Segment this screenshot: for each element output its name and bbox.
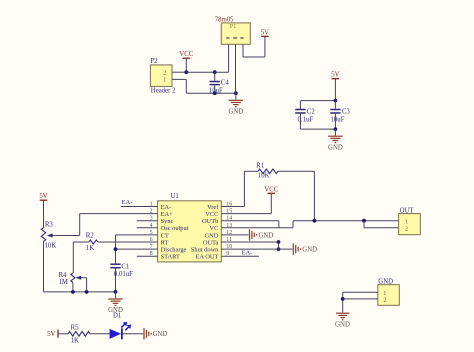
svg-text:1K: 1K [71,338,79,345]
svg-text:R5: R5 [71,324,80,331]
svg-text:EA+: EA+ [161,211,174,218]
svg-text:VCC: VCC [205,211,218,218]
svg-text:10K: 10K [45,242,57,249]
svg-text:2: 2 [163,70,166,76]
svg-text:5V: 5V [261,29,269,36]
svg-text:5V: 5V [331,72,339,79]
svg-text:GND: GND [335,322,350,329]
svg-text:P2: P2 [150,58,158,65]
svg-text:5V: 5V [39,193,47,200]
svg-text:0.1uF: 0.1uF [298,116,314,123]
svg-text:R2: R2 [86,232,95,239]
svg-text:R1: R1 [256,163,264,170]
svg-text:Vref: Vref [207,204,219,211]
svg-text:EA-: EA- [122,199,133,206]
svg-text:EA OUT: EA OUT [195,254,218,261]
svg-text:R3: R3 [45,222,54,229]
svg-text:EA-: EA- [161,204,172,211]
svg-text:2: 2 [383,298,386,304]
svg-text:START: START [161,254,180,261]
svg-text:GND: GND [302,247,317,254]
svg-text:Header 2: Header 2 [151,88,176,95]
svg-text:OUTa: OUTa [203,239,219,246]
svg-text:GND: GND [205,232,219,239]
svg-text:C1: C1 [122,263,130,270]
svg-text:10K: 10K [258,173,270,180]
svg-text:1K: 1K [86,245,94,252]
svg-text:1M: 1M [59,279,68,286]
svg-text:2: 2 [405,226,408,232]
svg-text:VC: VC [210,225,219,232]
svg-text:CT: CT [161,232,169,239]
svg-text:1: 1 [383,291,386,297]
svg-text:GND: GND [378,279,393,286]
svg-text:1: 1 [405,219,408,225]
svg-text:GND: GND [229,109,244,116]
svg-text:VCC: VCC [264,186,278,193]
svg-text:GND: GND [153,331,168,338]
svg-text:EA-: EA- [242,250,253,257]
svg-text:1: 1 [163,78,166,84]
svg-text:U1: U1 [171,193,179,200]
svg-text:Sync: Sync [161,218,174,225]
svg-text:VCC: VCC [179,51,193,58]
svg-text:C2: C2 [307,109,316,116]
svg-text:P1: P1 [230,23,237,30]
svg-text:Shut down: Shut down [191,247,219,254]
svg-text:RT: RT [161,239,169,246]
svg-text:OUTb: OUTb [202,218,218,225]
svg-text:Osc output: Osc output [161,225,189,232]
svg-text:0.01uF: 0.01uF [114,271,133,278]
svg-text:C4: C4 [221,80,230,87]
svg-text:Discharge: Discharge [161,247,187,254]
svg-text:GND: GND [259,232,274,239]
svg-text:OUT: OUT [400,207,415,214]
svg-text:10uF: 10uF [331,116,345,123]
svg-text:C3: C3 [342,109,351,116]
svg-text:GND: GND [328,144,343,151]
svg-text:5V: 5V [47,331,55,338]
svg-text:D1: D1 [113,312,121,319]
